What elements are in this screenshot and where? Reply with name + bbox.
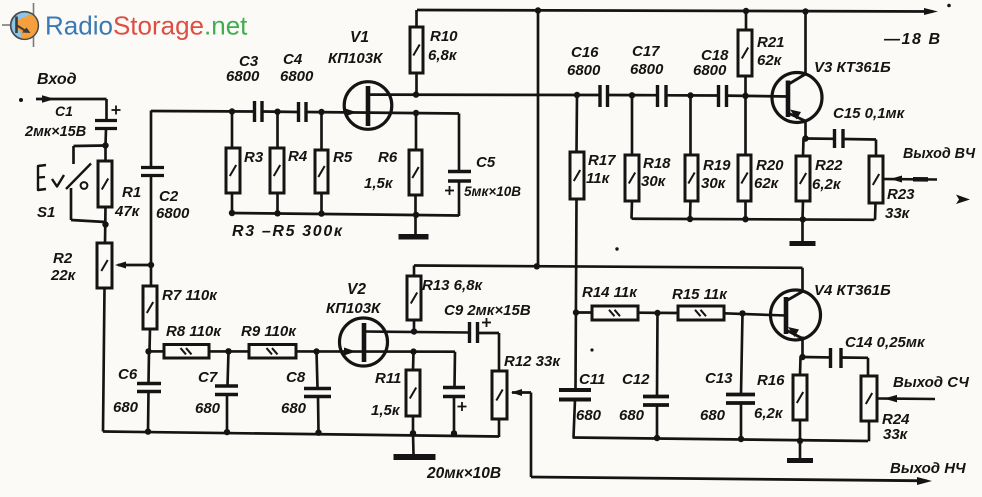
svg-text:R16: R16 [757, 372, 785, 389]
svg-text:С14 0,25мк: С14 0,25мк [845, 334, 926, 351]
svg-text:С17: С17 [632, 43, 660, 60]
svg-text:V3 КТ361Б: V3 КТ361Б [814, 59, 891, 76]
svg-text:Вход: Вход [37, 71, 77, 88]
svg-text:С1: С1 [55, 103, 73, 119]
svg-text:С4: С4 [283, 51, 303, 68]
svg-text:С2: С2 [159, 188, 179, 205]
svg-text:R21: R21 [757, 34, 785, 51]
svg-text:КП103К: КП103К [328, 50, 384, 67]
svg-text:R8 110к: R8 110к [166, 323, 222, 340]
svg-text:1,5к: 1,5к [364, 175, 394, 192]
svg-text:6800: 6800 [156, 205, 190, 222]
svg-text:С13: С13 [705, 370, 733, 387]
svg-text:R4: R4 [288, 148, 308, 165]
svg-text:С7: С7 [198, 369, 218, 386]
svg-text:680: 680 [700, 407, 726, 424]
svg-text:30к: 30к [701, 175, 727, 192]
svg-text:R7 110к: R7 110к [162, 287, 218, 304]
svg-text:R15 11к: R15 11к [672, 286, 728, 303]
svg-text:V4 КТ361Б: V4 КТ361Б [814, 282, 891, 299]
svg-text:680: 680 [113, 399, 139, 416]
svg-text:6800: 6800 [226, 68, 260, 85]
svg-text:20мк×10В: 20мк×10В [426, 465, 501, 482]
svg-text:6800: 6800 [630, 61, 664, 78]
svg-text:62к: 62к [757, 52, 783, 69]
svg-text:Выход НЧ: Выход НЧ [890, 460, 966, 477]
svg-text:R18: R18 [643, 155, 671, 172]
svg-text:R19: R19 [703, 157, 731, 174]
svg-text:6,2к: 6,2к [812, 176, 842, 193]
svg-text:R20: R20 [756, 157, 784, 174]
svg-text:R5: R5 [333, 149, 353, 166]
svg-text:Выход ВЧ: Выход ВЧ [903, 146, 976, 162]
svg-text:1,5к: 1,5к [371, 402, 401, 419]
svg-text:R12 33к: R12 33к [504, 353, 561, 370]
svg-text:22к: 22к [50, 267, 77, 284]
svg-text:6,8к: 6,8к [428, 47, 458, 64]
svg-text:S1: S1 [37, 204, 55, 221]
svg-text:680: 680 [619, 407, 645, 424]
svg-text:R6: R6 [378, 149, 398, 166]
svg-text:С11: С11 [579, 371, 605, 388]
svg-text:R17: R17 [588, 152, 616, 169]
svg-text:6800: 6800 [280, 68, 314, 85]
svg-text:33к: 33к [885, 205, 911, 222]
svg-text:С5: С5 [476, 154, 496, 171]
svg-text:680: 680 [195, 400, 221, 417]
svg-text:Выход СЧ: Выход СЧ [893, 374, 969, 391]
svg-text:680: 680 [576, 407, 602, 424]
svg-text:680: 680 [281, 400, 307, 417]
svg-text:С16: С16 [571, 44, 599, 61]
svg-text:6800: 6800 [567, 62, 601, 79]
svg-text:R14 11к: R14 11к [582, 284, 638, 301]
svg-text:11к: 11к [586, 170, 611, 187]
svg-text:С8: С8 [286, 369, 306, 386]
svg-text:R11: R11 [375, 370, 401, 387]
svg-text:R3: R3 [244, 149, 264, 166]
svg-text:RadioStorage.net: RadioStorage.net [45, 11, 248, 41]
svg-text:С15 0,1мк: С15 0,1мк [833, 105, 906, 122]
svg-text:R23: R23 [887, 186, 915, 203]
svg-text:R1: R1 [122, 184, 141, 201]
svg-text:62к: 62к [754, 175, 780, 192]
svg-text:С6: С6 [118, 366, 138, 383]
svg-text:5мк×10В: 5мк×10В [464, 184, 521, 199]
svg-text:30к: 30к [641, 173, 667, 190]
svg-text:R2: R2 [53, 250, 73, 267]
svg-text:R13 6,8к: R13 6,8к [422, 277, 484, 294]
svg-text:V2: V2 [347, 281, 366, 298]
svg-text:R10: R10 [430, 28, 458, 45]
svg-text:R9 110к: R9 110к [241, 323, 297, 340]
svg-text:33к: 33к [883, 426, 909, 443]
svg-text:—18 В: —18 В [883, 31, 940, 48]
svg-text:6800: 6800 [693, 62, 727, 79]
svg-text:С9 2мк×15В: С9 2мк×15В [444, 302, 531, 319]
svg-text:2мк×15В: 2мк×15В [24, 124, 86, 140]
svg-text:V1: V1 [350, 29, 369, 46]
svg-text:R3 –R5 300к: R3 –R5 300к [232, 223, 343, 240]
svg-text:47к: 47к [114, 203, 141, 220]
svg-text:R22: R22 [815, 157, 843, 174]
svg-text:С12: С12 [622, 371, 650, 388]
svg-text:КП103К: КП103К [326, 300, 382, 317]
svg-text:6,2к: 6,2к [754, 405, 784, 422]
